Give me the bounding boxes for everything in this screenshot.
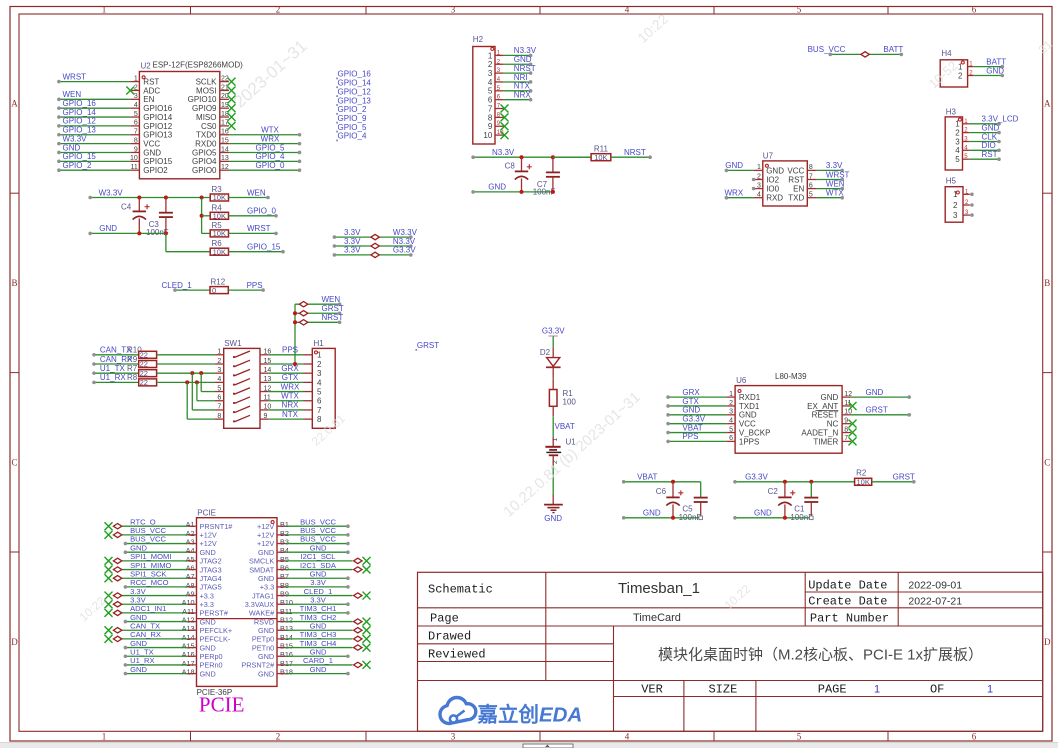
svg-text:CLED_1: CLED_1 bbox=[304, 587, 333, 596]
svg-text:W3.3V: W3.3V bbox=[63, 134, 88, 143]
svg-text:JTAG2: JTAG2 bbox=[200, 557, 222, 566]
junction GND at C7 bbox=[551, 190, 555, 194]
no-connect X on U2 pin 17 bbox=[228, 122, 236, 130]
sheet title chinese bbox=[658, 646, 983, 664]
wire U2 pin 7 to node GPIO_13 bbox=[57, 133, 130, 137]
unused flag X and net-tie on PCIE pin A11 bbox=[105, 609, 188, 617]
connector PCIE body bbox=[197, 518, 278, 687]
PCIE part name PCIE-36P bbox=[197, 688, 233, 697]
U2 right pin 21 bbox=[220, 89, 229, 91]
wire N3.3V to R11 bbox=[553, 156, 591, 158]
wire SW1 pin 16 to H1 pin 1 bbox=[269, 354, 304, 356]
node 3.3V bbox=[344, 246, 361, 255]
wire SW1 pin 11 to H1 pin 6 bbox=[269, 400, 304, 402]
svg-text:TIM3_CH4: TIM3_CH4 bbox=[300, 639, 337, 648]
svg-text:Part Number: Part Number bbox=[810, 612, 889, 626]
wire R1 to U1 (node VBAT) bbox=[552, 406, 554, 446]
U2 pin names bbox=[143, 78, 217, 176]
svg-text:3.3VAUX: 3.3VAUX bbox=[245, 600, 275, 609]
svg-text:A10: A10 bbox=[182, 598, 195, 607]
svg-text:A13: A13 bbox=[182, 624, 195, 633]
wire U2 pin 15 to node WRX bbox=[229, 142, 301, 146]
svg-text:Update Date: Update Date bbox=[808, 579, 887, 593]
svg-text:3: 3 bbox=[317, 369, 322, 378]
svg-text:GND: GND bbox=[258, 652, 274, 661]
unused flag X and net-tie on PCIE pin A7 bbox=[105, 574, 188, 582]
wire SW1 pin 10 to H1 pin 7 bbox=[269, 409, 304, 411]
capacitor C4 (polarized) bbox=[133, 198, 150, 234]
node NRST bbox=[624, 148, 646, 157]
svg-text:GND: GND bbox=[488, 183, 506, 192]
svg-text:+12V: +12V bbox=[257, 531, 274, 540]
svg-text:A12: A12 bbox=[182, 615, 195, 624]
U2 left pin 11 bbox=[130, 169, 139, 171]
U7 pin 2 stub bbox=[752, 178, 763, 182]
svg-text:3.3V: 3.3V bbox=[344, 228, 361, 237]
svg-text:C: C bbox=[11, 458, 17, 468]
wire PCIE pin A12 to node GND bbox=[124, 620, 188, 624]
connector H3 body bbox=[945, 117, 962, 170]
node GPIO_15 bbox=[63, 152, 97, 161]
no-connect X on H2 pin 9 bbox=[501, 122, 509, 130]
svg-text:MOSI: MOSI bbox=[196, 86, 216, 95]
U2 right pin 15 bbox=[220, 143, 229, 145]
svg-text:A8: A8 bbox=[186, 581, 195, 590]
node CAN_TX bbox=[100, 346, 132, 355]
wire CAN_RX to R9 bbox=[92, 362, 139, 366]
EasyEDA logo text bbox=[477, 703, 583, 727]
wire PCIE pin B7 to node GND bbox=[286, 576, 350, 580]
svg-text:3.3V: 3.3V bbox=[130, 595, 147, 604]
svg-text:NTX: NTX bbox=[514, 82, 531, 91]
svg-text:GND: GND bbox=[258, 574, 274, 583]
U2 left pin 9 bbox=[130, 151, 139, 153]
svg-text:R9: R9 bbox=[127, 355, 138, 364]
wire PCIE pin B18 to node GND bbox=[286, 672, 350, 676]
wire SW1 pin 12 to H1 pin 5 bbox=[269, 391, 304, 393]
svg-text:GND: GND bbox=[130, 639, 147, 648]
svg-text:WRST: WRST bbox=[63, 72, 87, 81]
wire 3.3V to N3.3V bbox=[333, 244, 413, 248]
svg-text:GND: GND bbox=[258, 669, 274, 678]
unused flag X and net-tie on PCIE pin B6 bbox=[286, 566, 371, 574]
svg-text:22: 22 bbox=[140, 369, 148, 378]
svg-text:C8: C8 bbox=[505, 162, 516, 171]
node GRST (U6) bbox=[866, 406, 888, 415]
svg-text:TIMER: TIMER bbox=[813, 437, 838, 446]
connector H5 body bbox=[945, 187, 963, 223]
node GPIO_2 (floating label) bbox=[336, 105, 367, 115]
R4 reference label bbox=[212, 203, 223, 212]
U7 pin numbers bbox=[757, 164, 813, 198]
canvas bottom scrollbar strip bbox=[0, 743, 1058, 748]
connector H5 reference label bbox=[946, 177, 957, 186]
junction tie bus NRST bbox=[293, 320, 297, 324]
resistor R7 bbox=[139, 370, 157, 377]
resistor R4 bbox=[210, 212, 228, 219]
IC U2 reference label bbox=[141, 61, 152, 70]
capacitor C1 bbox=[804, 482, 818, 518]
svg-text:GND: GND bbox=[310, 569, 327, 578]
svg-text:GPIO_12: GPIO_12 bbox=[338, 87, 372, 96]
wire H2 pin 5 to node NTX bbox=[504, 89, 533, 93]
C7 value 100nF bbox=[533, 188, 556, 197]
node GPIO_14 (floating label) bbox=[336, 79, 371, 89]
svg-text:RXD0: RXD0 bbox=[195, 140, 217, 149]
svg-text:WAKE#: WAKE# bbox=[249, 609, 275, 618]
no-connect X on H2 pin 7 bbox=[501, 105, 509, 113]
svg-text:A17: A17 bbox=[182, 659, 195, 668]
svg-text:8: 8 bbox=[488, 113, 493, 122]
svg-text:A11: A11 bbox=[182, 607, 194, 616]
R5 value 10K bbox=[213, 229, 226, 238]
node G3.3V bbox=[682, 414, 705, 423]
node GPIO_12 (floating label) bbox=[336, 87, 371, 97]
svg-text:10K: 10K bbox=[857, 477, 870, 486]
IC U7 body bbox=[763, 161, 808, 206]
svg-text:1: 1 bbox=[874, 684, 880, 696]
H4 pins and numbers bbox=[958, 62, 974, 81]
wire PCIE pin A18 to node GND bbox=[124, 672, 188, 676]
svg-text:ADC: ADC bbox=[143, 86, 160, 95]
svg-text:+12V: +12V bbox=[200, 539, 217, 548]
U6 part name L80-M39 bbox=[775, 372, 807, 381]
svg-text:GPIO12: GPIO12 bbox=[143, 122, 172, 131]
wire PCIE pin B16 to node GND bbox=[286, 654, 350, 658]
wire R2 to node GRST bbox=[872, 480, 916, 484]
svg-text:CAN_TX: CAN_TX bbox=[130, 621, 160, 630]
svg-text:6: 6 bbox=[972, 5, 977, 15]
svg-text:NRST: NRST bbox=[514, 64, 536, 73]
unused flag X and net-tie on PCIE pin A2 bbox=[105, 531, 188, 539]
wire H3 pin 4 to node DIO bbox=[969, 149, 1001, 153]
svg-text:A3: A3 bbox=[186, 537, 195, 546]
svg-text:RXD: RXD bbox=[766, 194, 783, 203]
R7 value 22 bbox=[140, 369, 148, 378]
C1 reference label bbox=[794, 505, 805, 514]
node 3.3V (A9) bbox=[130, 587, 147, 596]
node BUS_VCC (B1) bbox=[300, 517, 336, 526]
R1 reference label bbox=[563, 389, 574, 398]
node NTX bbox=[514, 82, 531, 91]
wire R6 to node GPIO_15 bbox=[229, 250, 285, 254]
svg-text:RSVD: RSVD bbox=[254, 617, 274, 626]
svg-text:GND: GND bbox=[514, 55, 532, 64]
U2 left pin 1 bbox=[130, 81, 139, 83]
U2 left pin 8 bbox=[130, 143, 139, 145]
svg-text:GRX: GRX bbox=[682, 388, 700, 397]
svg-text:GPIO4: GPIO4 bbox=[192, 157, 217, 166]
svg-text:6: 6 bbox=[972, 731, 977, 741]
svg-text:GRST: GRST bbox=[893, 473, 915, 482]
svg-text:嘉立创EDA: 嘉立创EDA bbox=[477, 703, 583, 727]
U2 right pin 14 bbox=[220, 151, 229, 153]
U2 right pin 12 bbox=[220, 169, 229, 171]
svg-text:BUS_VCC: BUS_VCC bbox=[130, 526, 166, 535]
svg-text:22: 22 bbox=[140, 350, 148, 359]
svg-text:GND: GND bbox=[986, 66, 1004, 75]
svg-text:GND: GND bbox=[754, 509, 772, 518]
svg-text:CARD_1: CARD_1 bbox=[303, 656, 333, 665]
svg-text:GPIO_13: GPIO_13 bbox=[63, 126, 97, 135]
node SPI1_MIMO (A6) bbox=[130, 561, 171, 570]
U2 right pin 16 bbox=[220, 134, 229, 136]
svg-text:6: 6 bbox=[488, 96, 493, 105]
node W3.3V bbox=[63, 134, 88, 143]
SW1 pin numbers bbox=[217, 349, 271, 420]
H1 pins and numbers bbox=[304, 351, 323, 424]
wire U1_TX to SW1 pin 5 bbox=[201, 373, 215, 391]
node GND (H2 rail) bbox=[488, 183, 506, 192]
svg-text:B: B bbox=[1044, 278, 1050, 288]
C8 reference label bbox=[505, 162, 516, 171]
node WRX bbox=[281, 382, 300, 391]
node GTX bbox=[682, 397, 699, 406]
unused flag X and net-tie on PCIE pin B12 bbox=[286, 618, 371, 626]
H2 pins and numbers bbox=[483, 50, 504, 140]
svg-text:PEFCLK+: PEFCLK+ bbox=[200, 626, 233, 635]
svg-text:GPIO15: GPIO15 bbox=[143, 157, 172, 166]
IC U7 reference label bbox=[763, 152, 774, 161]
svg-text:GND: GND bbox=[821, 393, 839, 402]
svg-text:GND: GND bbox=[63, 143, 81, 152]
svg-text:3: 3 bbox=[955, 137, 960, 146]
svg-text:G3.3V: G3.3V bbox=[682, 414, 705, 423]
svg-text:22: 22 bbox=[140, 360, 148, 369]
svg-text:W3.3V: W3.3V bbox=[99, 188, 124, 197]
svg-text:NTX: NTX bbox=[282, 410, 299, 419]
svg-text:1: 1 bbox=[955, 120, 960, 129]
wire tie to WEN bbox=[295, 302, 341, 306]
EasyEDA logo cloud icon bbox=[440, 698, 476, 724]
wire PCIE pin B2 to node BUS_VCC bbox=[286, 533, 350, 537]
node GPIO_15 bbox=[247, 243, 281, 252]
connector H2 body bbox=[473, 47, 495, 145]
svg-text:A: A bbox=[11, 99, 18, 109]
switch SW1 body bbox=[224, 348, 260, 428]
C2 reference label bbox=[768, 487, 779, 496]
net-tie diamond 3.3V/G3.3V bbox=[371, 252, 379, 257]
page name TimeCard bbox=[633, 612, 681, 624]
svg-text:Reviewed: Reviewed bbox=[428, 648, 486, 662]
wire PCIE pin B3 to node BUS_VCC bbox=[286, 542, 350, 546]
node NRX bbox=[282, 401, 300, 410]
node 3.3V (B8) bbox=[310, 578, 327, 587]
svg-text:WTX: WTX bbox=[281, 392, 299, 401]
node GPIO_0 bbox=[256, 161, 285, 170]
svg-text:PETp0: PETp0 bbox=[252, 635, 274, 644]
U6 pin names bbox=[739, 393, 839, 446]
node GND (U6) bbox=[866, 388, 884, 397]
node GND (ground symbol label) bbox=[544, 514, 562, 523]
node 3.3V bbox=[826, 161, 843, 170]
svg-text:PAGE: PAGE bbox=[818, 683, 847, 697]
svg-text:I2C1_SDA: I2C1_SDA bbox=[300, 561, 337, 570]
svg-text:RXD1: RXD1 bbox=[739, 393, 761, 402]
wire SW1 pin 13 to H1 pin 4 bbox=[269, 381, 304, 383]
node GPIO_12 bbox=[63, 117, 97, 126]
wire R5 to node WRST bbox=[229, 232, 278, 236]
svg-text:ADC1_IN1: ADC1_IN1 bbox=[130, 604, 166, 613]
U2 left pin 10 bbox=[130, 160, 139, 162]
svg-text:GPIO_9: GPIO_9 bbox=[338, 114, 367, 123]
U2 left pin 3 bbox=[130, 98, 139, 100]
wire BUS_VCC to BATT bbox=[829, 53, 904, 57]
wire H2 pin 1 to node N3.3V bbox=[504, 54, 533, 58]
capacitor C6 (polarized) bbox=[666, 482, 683, 518]
capacitor C8 (polarized) bbox=[515, 157, 532, 192]
frame row letters right bbox=[1044, 99, 1051, 648]
R4 value 10K bbox=[213, 211, 226, 220]
svg-text:GTX: GTX bbox=[682, 397, 699, 406]
node ADC1_IN1 (A11) bbox=[130, 604, 166, 613]
svg-text:G3.3V: G3.3V bbox=[542, 327, 565, 336]
svg-text:B: B bbox=[11, 278, 17, 288]
svg-text:1: 1 bbox=[102, 5, 107, 15]
svg-text:GND: GND bbox=[682, 406, 700, 415]
no-connect X on U2 pin 2 ADC bbox=[126, 86, 134, 94]
svg-text:100: 100 bbox=[563, 397, 577, 406]
wire U2 pin 12 to node GPIO_0 bbox=[229, 168, 301, 172]
wire U1_RX to SW1 pin 6 bbox=[197, 382, 215, 400]
wire U2 pin 8 to node W3.3V bbox=[57, 142, 130, 146]
wire PCIE pin A16 to node U1_TX bbox=[124, 654, 188, 658]
wire C3 to R6 bbox=[166, 233, 210, 251]
wire U6 pin 12 to node GND bbox=[842, 395, 911, 399]
node GPIO_13 bbox=[63, 126, 97, 135]
svg-text:GND: GND bbox=[310, 665, 327, 674]
wire U6 pin 4 to node G3.3V bbox=[666, 422, 735, 426]
svg-text:3.3V: 3.3V bbox=[344, 246, 361, 255]
resistor R2 bbox=[855, 478, 872, 485]
svg-text:1: 1 bbox=[488, 51, 493, 60]
unused flag X and net-tie on PCIE pin A13 bbox=[105, 626, 188, 634]
wire VBAT rail bbox=[622, 480, 701, 484]
svg-text:B16: B16 bbox=[280, 650, 293, 659]
svg-text:A2: A2 bbox=[186, 529, 195, 538]
node PPS bbox=[682, 432, 698, 441]
node GND bbox=[514, 55, 532, 64]
resistor R3 bbox=[210, 194, 228, 201]
svg-text:B15: B15 bbox=[280, 641, 293, 650]
U2 right pin 13 bbox=[220, 160, 229, 162]
svg-text:GPIO9: GPIO9 bbox=[192, 104, 217, 113]
R7 reference label bbox=[127, 364, 138, 373]
unused flag X and net-tie on PCIE pin B9 bbox=[286, 592, 371, 600]
node 3.3V bbox=[344, 228, 361, 237]
R11 reference label bbox=[594, 145, 609, 154]
svg-text:GND: GND bbox=[200, 548, 216, 557]
unused flag X and net-tie on PCIE pin A9 bbox=[105, 592, 188, 600]
node WEN bbox=[826, 179, 845, 188]
node NRX bbox=[514, 90, 532, 99]
node U1_TX (A16) bbox=[130, 647, 154, 656]
node GND (G3.3V group) bbox=[754, 509, 772, 518]
svg-text:模块化桌面时钟（M.2核心板、PCI-E 1x扩展板）: 模块化桌面时钟（M.2核心板、PCI-E 1x扩展板） bbox=[658, 646, 983, 664]
node DIO bbox=[982, 141, 996, 150]
svg-text:GRST: GRST bbox=[866, 406, 888, 415]
title block grid bbox=[418, 572, 1043, 731]
svg-text:GPIO_15: GPIO_15 bbox=[63, 152, 97, 161]
U1 reference label bbox=[566, 438, 577, 447]
svg-text:GND: GND bbox=[130, 665, 147, 674]
resistor R12 bbox=[210, 287, 228, 294]
no-connect X on U2 pin 19 bbox=[228, 104, 236, 112]
svg-text:2: 2 bbox=[958, 71, 963, 80]
svg-text:H1: H1 bbox=[314, 339, 325, 348]
node TIM3_CH3 (B14) bbox=[300, 630, 337, 639]
R9 reference label bbox=[127, 355, 138, 364]
IC U6 body bbox=[735, 386, 842, 454]
svg-text:1: 1 bbox=[552, 438, 559, 442]
unused flag X and net-tie on PCIE pin A6 bbox=[105, 566, 188, 574]
svg-text:WEN: WEN bbox=[247, 188, 266, 197]
node GPIO_9 (floating label) bbox=[336, 114, 367, 124]
svg-text:1: 1 bbox=[317, 351, 322, 360]
no-connect X on U6 pin 8 bbox=[842, 429, 856, 437]
wire CLED_1 to R12 bbox=[173, 288, 210, 292]
no-connect X on U2 pin 22 bbox=[228, 78, 236, 86]
node RCC_MCO (A8) bbox=[130, 578, 168, 587]
svg-text:2: 2 bbox=[276, 731, 281, 741]
svg-text:A14: A14 bbox=[182, 633, 195, 642]
R11 value 10K bbox=[594, 153, 607, 162]
wire U1_RX to R8 bbox=[92, 381, 139, 385]
svg-text:9: 9 bbox=[488, 122, 493, 131]
node WTX bbox=[281, 392, 299, 401]
svg-text:5: 5 bbox=[955, 155, 960, 164]
svg-text:GND: GND bbox=[200, 643, 216, 652]
svg-text:2022-09-01: 2022-09-01 bbox=[908, 580, 962, 592]
U7 pin names bbox=[766, 166, 804, 202]
svg-text:A6: A6 bbox=[186, 563, 195, 572]
U2 right pin 18 bbox=[220, 116, 229, 118]
svg-text:GPIO2: GPIO2 bbox=[143, 166, 168, 175]
wire U2 pin 13 to node GPIO_4 bbox=[229, 160, 301, 164]
wire PCIE pin B1 to node BUS_VCC bbox=[286, 524, 350, 528]
no-connect X on U6 pin 11 bbox=[842, 402, 856, 410]
node 3.3V (B10) bbox=[310, 595, 327, 604]
svg-text:ESP-12F(ESP8266MOD): ESP-12F(ESP8266MOD) bbox=[153, 61, 244, 70]
R5 reference label bbox=[212, 221, 223, 230]
svg-text:WRX: WRX bbox=[261, 134, 280, 143]
wire PCIE pin A4 to node GND bbox=[124, 550, 188, 554]
svg-text:NC: NC bbox=[827, 420, 839, 429]
svg-text:B14: B14 bbox=[280, 633, 293, 642]
svg-text:GND: GND bbox=[310, 621, 327, 630]
svg-text:3.3V: 3.3V bbox=[310, 595, 327, 604]
svg-text:CLK: CLK bbox=[982, 132, 998, 141]
svg-text:GND: GND bbox=[866, 388, 884, 397]
svg-text:10K: 10K bbox=[213, 247, 226, 256]
frame column numbers top bbox=[102, 5, 977, 15]
svg-text:BATT: BATT bbox=[883, 45, 903, 54]
svg-text:GND: GND bbox=[130, 613, 147, 622]
node GND (B4) bbox=[310, 543, 327, 552]
R3 value 10K bbox=[213, 193, 226, 202]
node BUS_VCC (A2) bbox=[130, 526, 166, 535]
wire U6 pin 3 to node GND bbox=[666, 413, 735, 417]
node GND bbox=[63, 143, 81, 152]
unused flag X and net-tie on PCIE pin A5 bbox=[105, 557, 188, 565]
net-tie diamond 3.3V/N3.3V bbox=[371, 243, 379, 248]
U2 left pin 5 bbox=[130, 116, 139, 118]
wire R9 to SW1 pin 2 bbox=[157, 363, 215, 365]
node G3.3V (rail) bbox=[745, 473, 768, 482]
svg-text:B5: B5 bbox=[280, 555, 289, 564]
svg-text:6: 6 bbox=[317, 397, 322, 406]
wire W3.3V rail bbox=[88, 196, 210, 200]
